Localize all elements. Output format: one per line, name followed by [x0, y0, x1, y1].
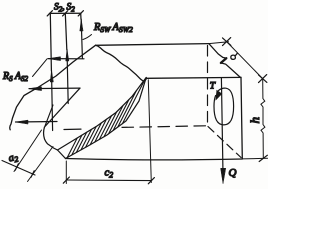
hatching [67, 79, 145, 158]
freehand broken edge (wavy) [96, 45, 147, 81]
wedge piece lower-left edge P2 [45, 88, 81, 127]
left arrow 3 (lower) [16, 121, 58, 124]
h bottom tick [259, 155, 267, 161]
extension to X mark [209, 42, 229, 44]
a2 extension line D1 [14, 130, 42, 172]
wedge piece left edge P1 with hook [10, 45, 96, 130]
tick left [47, 11, 52, 16]
dimension line S2,S2 top [49, 12, 81, 14]
h dimension line [261, 79, 265, 159]
svg-text:T: T [210, 81, 216, 91]
a2 extension line D2 [28, 147, 54, 182]
svg-text:a2: a2 [7, 152, 19, 166]
hidden back-right vertical edge (dashed) [207, 46, 209, 125]
c2 left extension [65, 161, 67, 184]
torque arrowhead [216, 90, 222, 100]
box back top edge [96, 44, 209, 46]
axis line with Q arrow [221, 78, 223, 168]
label b (small sigma-like glyph) [231, 53, 238, 59]
X mark b-dim near end [223, 38, 231, 46]
svg-text:RS AS2: RS AS2 [2, 71, 29, 83]
b dimension slanted line [227, 42, 263, 79]
box bottom edge [66, 159, 243, 160]
c2 right extension [148, 80, 151, 183]
torque ellipse [214, 88, 234, 125]
short edge stroke P2b [45, 105, 53, 126]
hidden back bottom edge dashed right part [122, 126, 207, 128]
hidden receding bottom edge (dashed) [208, 127, 241, 158]
wedge hatched band lower line B2 [66, 78, 147, 159]
c2 tick right [148, 178, 154, 184]
a2 dimension line [2, 161, 35, 176]
svg-text:h: h [247, 117, 262, 124]
force S2' arrow [67, 50, 68, 104]
c2 dimension line [66, 179, 151, 182]
wedge butt end [58, 150, 66, 159]
wedge hatched band upper line B1 [58, 78, 147, 151]
leader RsAs2 [33, 59, 48, 77]
a2 tick 2 [31, 171, 34, 178]
left arrow 2 (middle) [29, 87, 80, 90]
X mark b-dim far end [259, 75, 267, 83]
box right edge [241, 77, 242, 158]
force S2 extension line [50, 13, 51, 70]
c2 tick left [63, 177, 69, 183]
svg-text:RSW ASW2: RSW ASW2 [93, 22, 133, 34]
bottom extension right [242, 157, 267, 160]
svg-text:Q: Q [229, 167, 237, 179]
left arrow 1 (upper) [48, 58, 84, 60]
svg-text:c2: c2 [105, 168, 114, 180]
box receding top-right edge with zigzag [209, 44, 241, 78]
label leader curve [83, 35, 92, 40]
piece bottom tip curve [44, 127, 58, 150]
hidden back bottom edge (dashed) [64, 128, 84, 130]
svg-text:S2, S2: S2, S2 [54, 3, 75, 14]
box front top edge [147, 76, 241, 79]
tick right [78, 11, 83, 16]
force Rsw extension [80, 13, 82, 19]
tick middle [63, 11, 68, 16]
force Rsw arrow [81, 19, 82, 58]
a2 tick 1 [15, 164, 18, 171]
force S2' extension line [65, 13, 67, 49]
force S2 arrow [52, 71, 53, 131]
